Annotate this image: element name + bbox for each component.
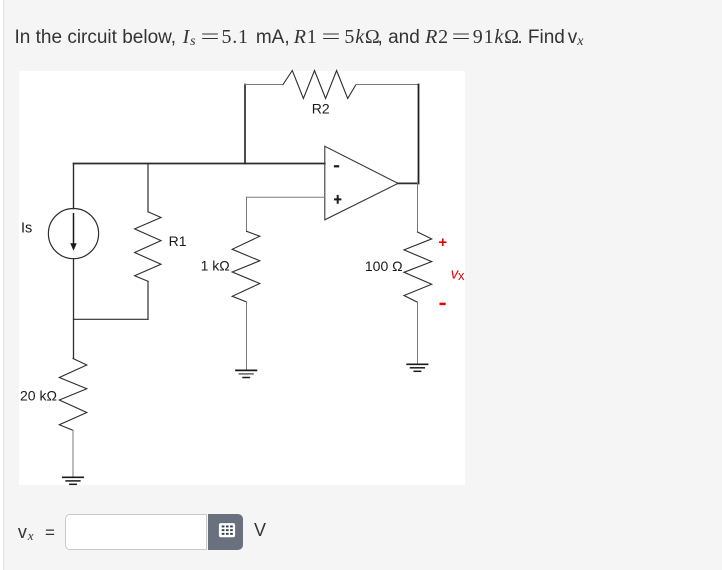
svg-text:20 kΩ: 20 kΩ <box>20 388 57 404</box>
svg-text:R1: R1 <box>169 233 187 249</box>
svg-text:x: x <box>458 268 465 283</box>
ground (20 kOhm) <box>63 476 83 478</box>
answer label vx = <box>18 522 55 544</box>
wire output node down to 100 Ohm <box>417 183 419 232</box>
wire left vertical from top rail to current source <box>73 164 75 209</box>
resistor R2 with feedback loop wires <box>244 85 246 164</box>
wire main horizontal to inverting input <box>74 163 325 165</box>
wire op-amp output <box>398 182 419 184</box>
resistor R1 <box>147 164 149 212</box>
svg-text:Is: Is <box>21 220 32 236</box>
wire bottom junction horizontal to R1 <box>74 318 149 320</box>
svg-text:100 Ω: 100 Ω <box>365 258 403 274</box>
resistor 1 kOhm <box>232 231 260 302</box>
svg-text:R2: R2 <box>312 101 330 117</box>
ground (100 Ohm) <box>407 363 427 365</box>
wire noninverting input <box>247 196 325 198</box>
answer input box <box>65 514 207 550</box>
svg-text:+: + <box>438 234 447 251</box>
resistor 20 kOhm <box>59 359 87 431</box>
keypad button <box>208 514 243 550</box>
op-amp U1 <box>325 146 398 220</box>
svg-text:1 kΩ: 1 kΩ <box>201 258 230 274</box>
ground (1 kOhm) <box>236 369 256 371</box>
wire below current source down to 20k resistor <box>73 259 75 359</box>
unit V <box>254 520 266 541</box>
resistor 100 Ohm <box>404 232 432 302</box>
current source Is <box>48 209 98 259</box>
label - (vx polarity bottom) <box>440 303 446 306</box>
